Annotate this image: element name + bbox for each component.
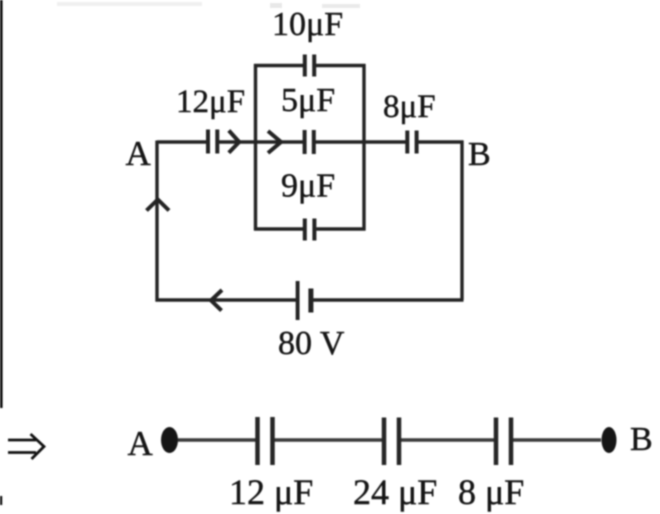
svg-text:24 μF: 24 μF [353,472,437,512]
current arrow before C2 [268,131,281,153]
capacitor C7 24uF plates [384,418,399,466]
svg-text:B: B [630,421,653,458]
wire C5 to C8 [315,140,408,143]
svg-text:12μF: 12μF [176,84,245,120]
cropped text remnant top left [57,2,202,6]
capacitor C8b 8uF plates [496,418,511,466]
svg-text:A: A [128,424,154,463]
wire A dot to C6 [178,438,256,441]
implies arrow [8,434,44,459]
svg-text:80 V: 80 V [278,325,345,362]
wire right vertical [460,141,463,301]
wire C6 to C7 [275,438,383,441]
capacitor C1 12uF plates [208,130,217,154]
box top edge [254,64,366,67]
battery V1 short plate [308,289,313,313]
capacitor C3 10uF plates [305,55,314,77]
wire bottom right segment [311,298,464,301]
wire C8b to B dot [513,438,601,441]
wire A to C1 [157,140,208,143]
svg-text:12 μF: 12 μF [229,472,313,512]
box bottom edge [254,227,366,230]
wire left vertical [155,141,158,302]
page border lower tick [0,496,2,505]
node B terminal dot [602,427,617,453]
current arrow left bottom wire [211,290,222,311]
capacitor C6 12uF plates [258,417,273,465]
battery V1 long plate [296,281,300,320]
wire bottom left segment [156,298,298,301]
svg-text:10μF: 10μF [272,6,343,43]
svg-text:B: B [468,136,491,173]
svg-text:A: A [126,134,152,173]
current arrow after C1 [229,131,239,153]
svg-text:5μF: 5μF [281,82,335,119]
capacitor C5 8uF plates [407,131,416,154]
wire C7 to C8b [401,438,494,441]
capacitor C2 5uF plates [305,130,314,154]
cropped text remnant top middle [270,3,282,8]
box right edge [362,64,365,231]
svg-text:8μF: 8μF [383,89,436,125]
box left edge [254,64,257,231]
wire C8 to B corner [417,140,464,143]
svg-text:9μF: 9μF [281,168,335,205]
capacitor C4 9uF plates [305,219,315,241]
svg-text:8 μF: 8 μF [458,472,524,512]
current arrow up left wire [147,200,170,211]
page border left [0,0,3,408]
node A terminal dot [161,427,178,453]
cropped text remnant top middle right [322,4,360,8]
wire C1 to C5 [218,140,305,143]
